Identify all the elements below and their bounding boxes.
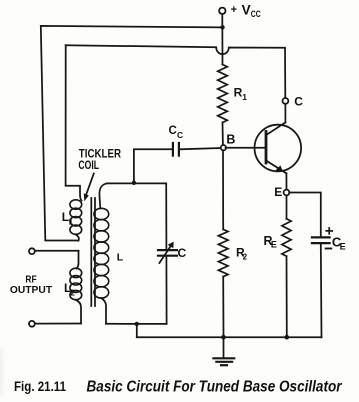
wire RF bottom to L2	[35, 323, 81, 325]
wire ground rail	[137, 336, 322, 338]
variable capacitor C plates	[158, 249, 177, 251]
coil L2 top lead	[77, 251, 79, 269]
label E	[274, 185, 282, 199]
svg-text:2: 2	[243, 252, 248, 261]
label CE polarity plus	[326, 228, 332, 234]
svg-text:E: E	[271, 240, 277, 250]
wire R1 to node B	[222, 123, 224, 146]
wire RF top to L2	[35, 250, 79, 252]
terminal +Vcc	[219, 8, 225, 14]
coil L bottom lead	[101, 298, 106, 324]
wire E to RE	[286, 195, 288, 218]
svg-text:C: C	[169, 125, 177, 137]
label L1	[62, 210, 74, 226]
label C tuning	[178, 246, 187, 260]
label CE	[332, 235, 346, 252]
wire L1 top to collector with crossover hop	[66, 45, 286, 98]
wire tickler down-lead	[66, 45, 82, 200]
ground symbol	[213, 357, 234, 359]
junction tank top tee	[132, 181, 136, 185]
coil L1 bottom lead	[76, 234, 79, 240]
capacitor CE plates	[312, 236, 330, 238]
label C collector	[294, 94, 303, 108]
wire tank to CC	[134, 149, 172, 183]
capacitor CC plates	[172, 143, 174, 156]
label +Vcc	[231, 3, 262, 20]
svg-text:C: C	[177, 130, 183, 140]
wire CC to B	[180, 148, 221, 149]
terminal RF output bottom	[29, 321, 35, 327]
scan edge smudge	[0, 348, 3, 396]
label R2	[236, 245, 248, 261]
variable capacitor arrow	[159, 245, 171, 263]
svg-text:2: 2	[70, 289, 75, 298]
label L	[117, 252, 124, 264]
wire emitter to E	[285, 173, 287, 189]
label RE	[264, 234, 277, 249]
svg-text:OUTPUT: OUTPUT	[10, 285, 52, 296]
junction tank bottom tee	[135, 322, 139, 326]
transformer core	[90, 198, 92, 306]
svg-text:V: V	[242, 3, 251, 18]
tickler pointer arrow	[86, 174, 94, 197]
svg-text:L: L	[117, 252, 124, 264]
wire tank to ground rail	[136, 324, 138, 337]
transistor collector stroke	[267, 123, 286, 135]
wire Vcc feedback to L1 bottom	[41, 26, 223, 241]
svg-text:C: C	[294, 94, 303, 108]
label L2	[64, 281, 75, 298]
coil L secondary winding	[94, 208, 109, 298]
junction Vcc tee	[220, 25, 224, 29]
transistor Q1 outline	[254, 125, 301, 172]
transistor emitter stroke	[267, 161, 287, 174]
ground stem	[223, 337, 225, 358]
svg-text:+: +	[231, 4, 237, 16]
junction R2 rail	[221, 335, 226, 340]
resistor R1	[218, 65, 228, 123]
svg-text:1: 1	[69, 218, 74, 227]
transistor emitter arrowhead	[276, 165, 283, 172]
wire base	[226, 147, 265, 149]
wire B to R2	[222, 150, 224, 229]
svg-text:Fig. 21.11: Fig. 21.11	[14, 378, 66, 394]
resistor R2	[218, 229, 228, 276]
wire tank top	[107, 183, 167, 249]
terminal C ring	[283, 98, 289, 104]
svg-text:RF: RF	[25, 275, 36, 286]
wire R2 to ground rail	[222, 277, 224, 338]
label TICKLER COIL	[78, 147, 121, 172]
svg-text:E: E	[274, 185, 282, 199]
label R1	[234, 85, 248, 102]
junction RE rail	[285, 335, 290, 340]
svg-text:B: B	[226, 133, 235, 147]
wire CE to ground rail	[320, 244, 323, 337]
svg-text:R: R	[234, 85, 243, 99]
svg-text:Basic Circuit For Tuned Base O: Basic Circuit For Tuned Base Oscillator	[87, 379, 343, 396]
coil L2 output winding	[70, 268, 82, 300]
svg-text:COIL: COIL	[78, 158, 99, 172]
svg-text:E: E	[340, 242, 346, 252]
transistor base bar	[265, 132, 268, 164]
label B	[226, 133, 235, 147]
coil L top lead	[99, 183, 106, 208]
coil L2 bottom lead	[76, 300, 81, 324]
wire tank bottom	[106, 323, 167, 325]
svg-text:CC: CC	[251, 9, 261, 19]
coil L1 tickler winding	[70, 200, 82, 235]
wire Vcc vertical to R1	[221, 14, 223, 64]
label RF OUTPUT	[10, 275, 52, 297]
label CC	[169, 125, 184, 140]
label CE polarity minus	[326, 248, 332, 250]
terminal RF output top	[29, 248, 35, 254]
wire collector terminal	[284, 104, 286, 123]
svg-text:C: C	[178, 246, 187, 260]
wire RE to ground rail	[286, 256, 288, 337]
wire E to CE	[289, 193, 321, 237]
node B terminal ring	[221, 145, 226, 150]
wire C bottom to tank bottom	[165, 257, 167, 324]
resistor RE	[282, 219, 291, 256]
terminal E ring	[284, 190, 290, 196]
svg-text:1: 1	[242, 92, 247, 102]
